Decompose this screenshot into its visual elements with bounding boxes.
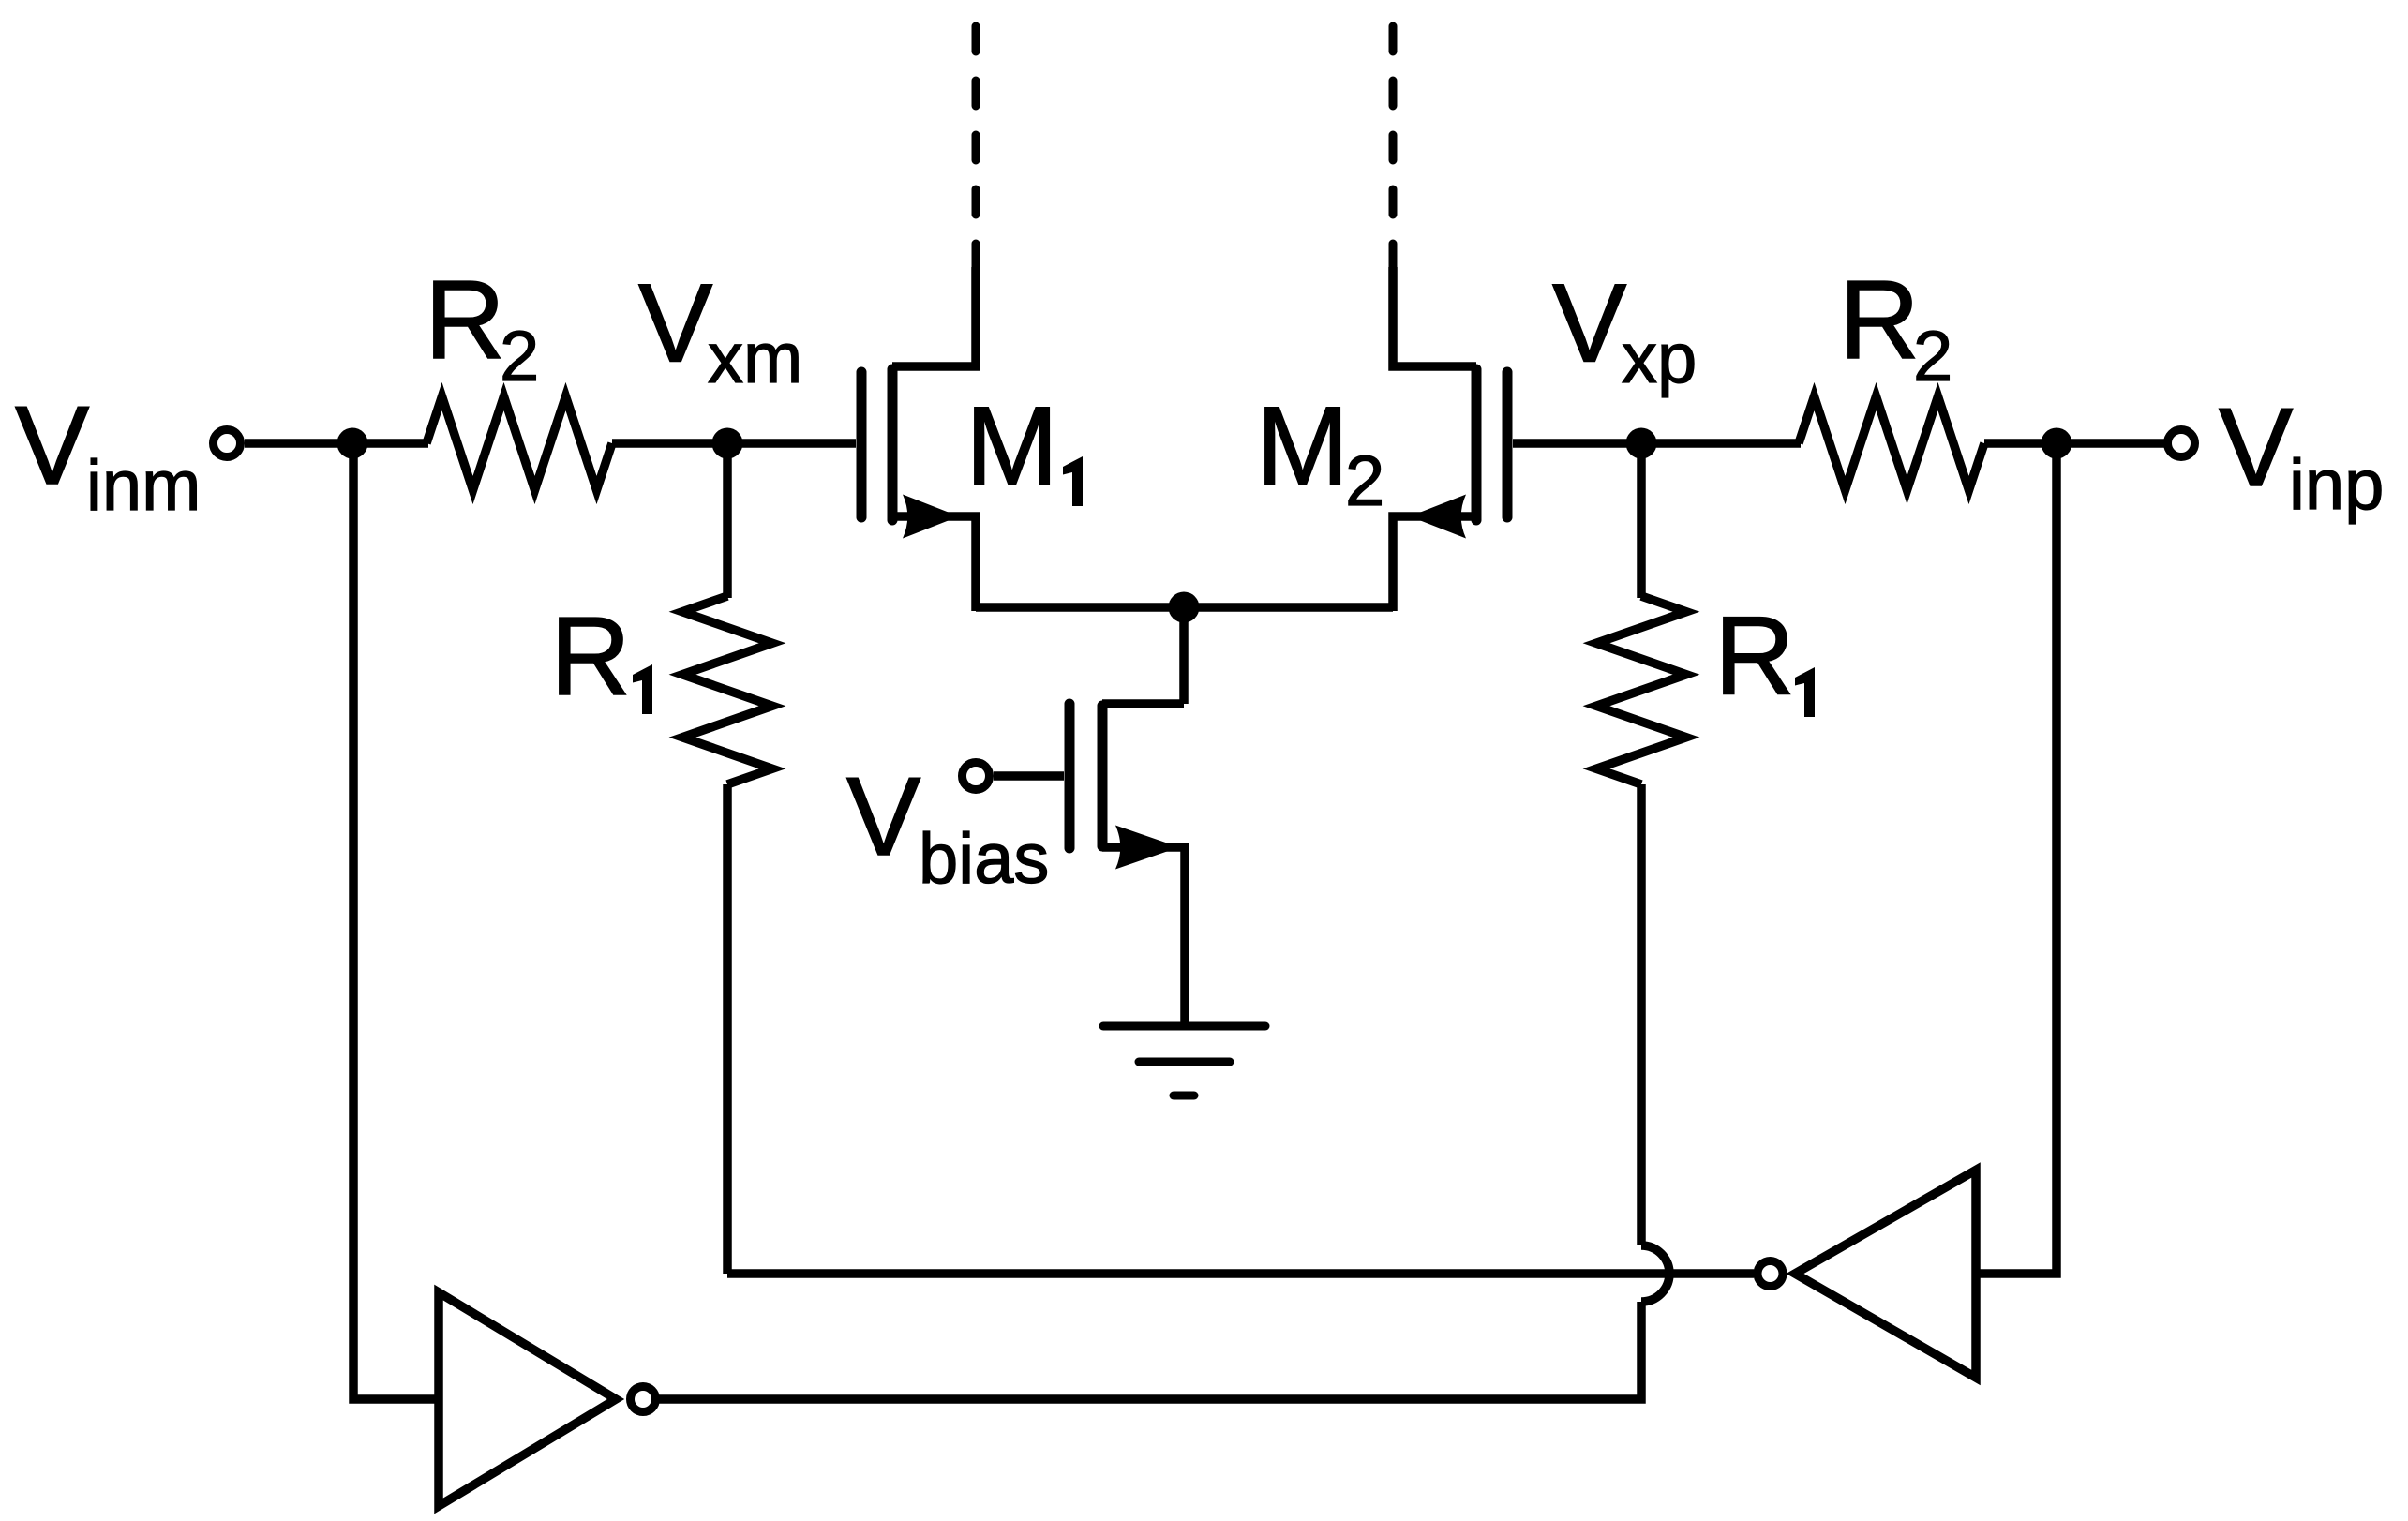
tail source arrow bbox=[1115, 826, 1179, 870]
right inverter triangle bbox=[1795, 1171, 1976, 1379]
M1 source arrow bbox=[903, 495, 959, 539]
junction node A bbox=[337, 428, 368, 459]
svg-text:2: 2 bbox=[1913, 317, 1952, 396]
label Vbias bbox=[846, 754, 1049, 899]
svg-text:xp: xp bbox=[1622, 319, 1697, 398]
wire node B down to right inverter input bbox=[1973, 443, 2057, 1274]
junction node B bbox=[2042, 428, 2072, 459]
junction tail node bbox=[1169, 592, 1200, 623]
ground top bar bbox=[1103, 1022, 1265, 1031]
svg-text:R: R bbox=[1714, 594, 1795, 719]
M2 channel bar bbox=[1472, 369, 1482, 520]
left inverter triangle bbox=[439, 1292, 616, 1506]
label R1 left bbox=[550, 594, 652, 719]
svg-text:inm: inm bbox=[86, 446, 201, 526]
M2 source stub bbox=[1393, 516, 1476, 611]
wire node Vxp to R2 right bbox=[1641, 439, 1801, 448]
wire R1 left down to cross rail bbox=[723, 784, 732, 1274]
M1 source stub bbox=[892, 516, 976, 611]
svg-text:M: M bbox=[965, 384, 1058, 509]
label M2 bbox=[1256, 384, 1384, 522]
svg-text:R: R bbox=[550, 594, 631, 719]
svg-text:xm: xm bbox=[708, 319, 802, 398]
tail gate bar bbox=[1065, 704, 1075, 848]
M2 source arrow bbox=[1410, 495, 1466, 539]
svg-text:V: V bbox=[15, 383, 89, 508]
wire Vxm to M1 gate bbox=[727, 439, 856, 448]
wire cross rail (right inverter output to R1 left) bbox=[727, 1269, 1754, 1278]
wire R2 left to node Vxm bbox=[612, 439, 727, 448]
ground bottom bar bbox=[1174, 1092, 1194, 1100]
ground middle bar bbox=[1139, 1058, 1230, 1066]
resistor R1 left bbox=[682, 596, 772, 784]
ground bbox=[1103, 1026, 1265, 1096]
resistor R2 left bbox=[426, 396, 612, 490]
wire node A to R2 left bbox=[352, 439, 428, 448]
svg-text:inp: inp bbox=[2289, 445, 2384, 525]
transistor M2 bbox=[1393, 267, 1507, 611]
svg-text:bias: bias bbox=[919, 819, 1049, 899]
junction node Vxm bbox=[712, 428, 743, 459]
inverter right bbox=[1757, 1171, 1976, 1379]
wire node A down to left inverter input bbox=[353, 443, 437, 1399]
terminal Vbias bbox=[963, 763, 990, 790]
resistor R1 right bbox=[1596, 596, 1686, 784]
input terminal Vinp bbox=[2168, 430, 2195, 457]
wire Vbias gate lead bbox=[994, 771, 1064, 781]
label Vxm bbox=[638, 261, 802, 399]
svg-text:V: V bbox=[846, 754, 920, 879]
wire R2 right to node B bbox=[1984, 439, 2057, 448]
left inverter bubble bbox=[631, 1387, 656, 1412]
label R2 right bbox=[1839, 258, 1952, 396]
tail channel bar bbox=[1098, 706, 1108, 846]
label M1 bbox=[965, 384, 1083, 509]
wire Vxm down to R1 left bbox=[723, 443, 732, 598]
tail transistor wire from tail node down bbox=[1179, 607, 1189, 704]
resistor R2 right bbox=[1799, 396, 1984, 490]
M1 drain stub bbox=[892, 267, 976, 366]
svg-text:M: M bbox=[1256, 384, 1349, 509]
wire node B to Vinp terminal bbox=[2057, 439, 2164, 448]
svg-text:V: V bbox=[2219, 385, 2293, 510]
wire hop over cross rail bbox=[1641, 1245, 1669, 1302]
wire R1 right down to hop bbox=[1637, 784, 1646, 1245]
svg-text:R: R bbox=[425, 258, 505, 382]
inverter left bbox=[439, 1292, 656, 1506]
M2 drain dashed supply line bbox=[1389, 26, 1398, 269]
tail drain stub bbox=[1102, 699, 1184, 708]
svg-text:V: V bbox=[1552, 261, 1626, 386]
M1 drain dashed supply line bbox=[972, 26, 980, 269]
M1 gate bar bbox=[857, 372, 867, 517]
wire M2 gate to node Vxp bbox=[1513, 439, 1641, 448]
svg-text:2: 2 bbox=[500, 317, 539, 396]
wire Vinm terminal to node A bbox=[245, 439, 352, 448]
wire common source rail bbox=[976, 603, 1393, 612]
transistor M1 bbox=[861, 267, 976, 611]
label R1 right bbox=[1714, 594, 1815, 719]
M2 gate bar bbox=[1503, 372, 1513, 517]
svg-text:R: R bbox=[1839, 258, 1920, 382]
right inverter bubble bbox=[1757, 1261, 1783, 1287]
label Vinp bbox=[2219, 385, 2384, 525]
svg-text:2: 2 bbox=[1345, 441, 1384, 521]
label Vxp bbox=[1552, 261, 1697, 399]
label R2 left bbox=[425, 258, 539, 396]
tail source stub bbox=[1102, 847, 1185, 1026]
junction node Vxp bbox=[1626, 428, 1657, 459]
label Vinm bbox=[15, 383, 201, 526]
wire hop to lower rail corner bbox=[659, 1302, 1641, 1399]
wire Vxp down to R1 right bbox=[1637, 443, 1646, 598]
svg-text:V: V bbox=[638, 261, 712, 386]
M1 channel bar bbox=[888, 369, 898, 520]
input terminal Vinm bbox=[214, 430, 241, 457]
M2 drain stub bbox=[1393, 267, 1476, 366]
tail current-source transistor bbox=[1069, 704, 1185, 1026]
